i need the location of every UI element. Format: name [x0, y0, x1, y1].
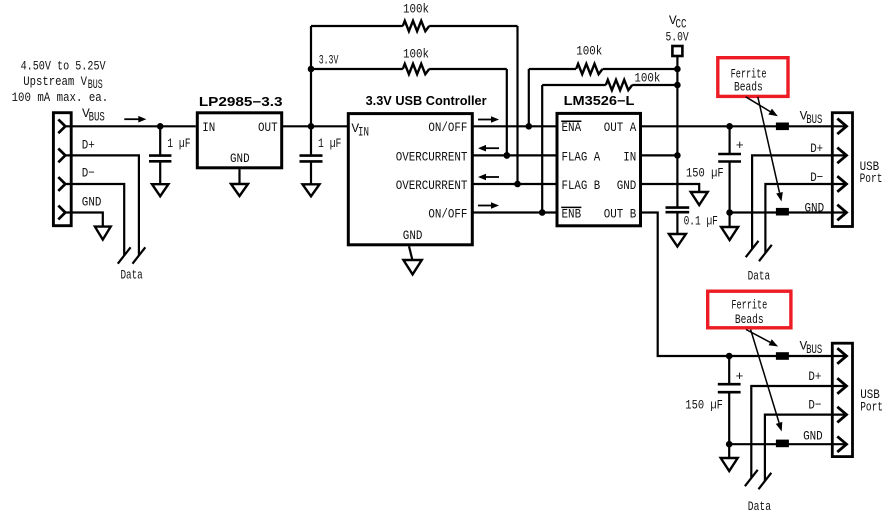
- svg-text:100k: 100k: [403, 2, 429, 17]
- wire LP2985 OUT to controller VIN (3.3V rail): [282, 125, 349, 127]
- wire U2 OVERCURRENT-B to U3 FLAG B: [472, 183, 557, 185]
- svg-text:Beads: Beads: [734, 80, 763, 95]
- svg-text:Ferrite: Ferrite: [731, 297, 767, 312]
- controller U2 3.3V USB Controller: [348, 114, 472, 245]
- svg-text:Port: Port: [860, 171, 883, 186]
- wire VCC rail down to IN and C4: [676, 69, 678, 208]
- junction dot OUT A at C5: [726, 123, 733, 130]
- svg-text:IN: IN: [358, 124, 369, 139]
- wire U3 GND to ground: [641, 184, 700, 192]
- junction dot C6 at bottom GND wire: [726, 441, 733, 448]
- junction dot VCC at IN: [674, 152, 681, 159]
- capacitor C5 150uF bulk (top port): [718, 126, 741, 212]
- svg-text:OUT A: OUT A: [604, 120, 637, 135]
- pin label ENA (U3): [561, 120, 581, 135]
- svg-text:1 µF: 1 µF: [318, 136, 341, 151]
- wire top port D-: [765, 184, 846, 253]
- wire 3.3V rail riser: [310, 26, 312, 126]
- svg-text:D+: D+: [808, 369, 821, 384]
- svg-text:GND: GND: [403, 228, 423, 243]
- ground (C5 / top port GND): [721, 213, 738, 241]
- break mark D- (top port): [759, 245, 772, 261]
- svg-text:GND: GND: [805, 200, 825, 215]
- wire U3 OUT B to bottom USB port VBUS: [641, 213, 847, 357]
- ground (U1 GND): [231, 169, 248, 196]
- capacitor C6 150uF bulk (bottom port): [718, 356, 741, 444]
- wire U2 ON/OFF-B to U3 ENB: [472, 211, 557, 213]
- svg-text:Port: Port: [860, 399, 883, 414]
- svg-text:GND: GND: [617, 178, 637, 193]
- wire bottom port GND: [729, 443, 846, 445]
- top USB port connector J2: [832, 113, 852, 227]
- signal arrow OVERCURRENT-A: [485, 147, 499, 149]
- svg-text:5.0V: 5.0V: [666, 30, 689, 45]
- junction dot FLAG A pull-up: [504, 152, 511, 159]
- svg-text:D−: D−: [810, 170, 823, 185]
- wire U3 OUT A to top USB port VBUS: [641, 125, 847, 127]
- ferrite bead FB4 on bottom GND: [776, 440, 789, 448]
- label USB Port (top): [860, 159, 883, 186]
- wire R1 to FLAG B net: [516, 26, 518, 184]
- svg-text:D−: D−: [808, 398, 821, 413]
- svg-text:ENB: ENB: [562, 206, 582, 221]
- junction dot OUT B at C6: [726, 353, 733, 360]
- junction dot at C1: [157, 123, 164, 130]
- wire U2 ON/OFF-A to U3 ENA: [472, 125, 557, 127]
- wire top port D+: [752, 155, 846, 249]
- break mark D+ upstream: [133, 247, 146, 263]
- callout box Ferrite Beads (bottom): [708, 291, 791, 328]
- break mark D- upstream: [118, 247, 131, 263]
- svg-text:OUT B: OUT B: [604, 206, 637, 221]
- ground (C1): [152, 184, 168, 196]
- resistor R2 100k (flag A pull-up to 3.3V): [311, 64, 507, 74]
- svg-text:BUS: BUS: [806, 112, 822, 127]
- junction dot ENA pull-up: [526, 123, 533, 130]
- svg-text:0.1 µF: 0.1 µF: [684, 214, 718, 229]
- leader arrow to FB4: [751, 330, 780, 423]
- svg-text:IN: IN: [623, 149, 636, 164]
- leader arrow to FB3: [746, 330, 770, 343]
- signal arrow ON/OFF-A: [478, 119, 492, 121]
- svg-text:BUS: BUS: [89, 110, 105, 125]
- resistor R3 100k (ENA pull-up to VCC): [529, 64, 678, 127]
- svg-text:Upstream V: Upstream V: [23, 74, 87, 89]
- svg-text:OVERCURRENT: OVERCURRENT: [396, 178, 468, 193]
- resistor R4 100k (ENB pull-up to VCC): [542, 80, 677, 213]
- svg-text:Data: Data: [120, 268, 142, 283]
- svg-text:100k: 100k: [634, 71, 660, 86]
- svg-text:+: +: [736, 138, 744, 153]
- capacitor C4 0.1uF VCC decoupling: [666, 208, 690, 234]
- junction dot 3.3V riser at R2: [308, 66, 315, 73]
- svg-text:OUT: OUT: [258, 120, 278, 135]
- svg-text:D−: D−: [82, 166, 95, 181]
- capacitor C1 1uF at LP2985 input: [149, 126, 171, 184]
- callout box Ferrite Beads (top): [718, 58, 788, 97]
- svg-text:IN: IN: [202, 120, 215, 135]
- regulator U1 LP2985-3.3: [197, 113, 281, 168]
- svg-text:D+: D+: [82, 138, 95, 153]
- wire GND upstream: [65, 213, 103, 227]
- ferrite bead FB2 on top GND: [776, 208, 789, 216]
- bottom USB port connector J3: [832, 343, 852, 456]
- svg-text:100k: 100k: [403, 47, 429, 62]
- break mark D+ (bottom port): [745, 470, 758, 486]
- power terminal VCC 5.0V: [672, 46, 682, 69]
- svg-text:FLAG B: FLAG B: [562, 178, 601, 193]
- junction dot at 3.3V rail / C2: [308, 123, 315, 130]
- svg-text:100 mA max. ea.: 100 mA max. ea.: [12, 90, 109, 105]
- leader arrow to FB1: [746, 97, 771, 112]
- wire D- upstream: [65, 184, 124, 256]
- ground (upstream GND): [95, 227, 111, 240]
- ground (U3 GND): [691, 192, 708, 205]
- upstream USB connector J1: [53, 113, 71, 226]
- svg-text:LP2985−3.3: LP2985−3.3: [199, 95, 283, 109]
- ground (C2): [303, 184, 320, 196]
- junction dot ENB pull-up: [539, 209, 546, 216]
- svg-text:ON/OFF: ON/OFF: [428, 206, 467, 221]
- junction dot C5 at top GND wire: [726, 209, 733, 216]
- svg-text:BUS: BUS: [806, 342, 822, 357]
- junction dot R1 at FLAG B wire: [514, 181, 521, 188]
- ferrite bead FB3 on bottom VBUS: [776, 352, 789, 360]
- svg-text:+: +: [736, 369, 744, 384]
- svg-text:D+: D+: [810, 141, 823, 156]
- wire U3 IN to VCC rail: [641, 154, 678, 156]
- wire bottom port D-: [765, 415, 847, 481]
- svg-text:Data: Data: [748, 268, 771, 283]
- break mark D+ (top port): [746, 241, 759, 257]
- svg-text:150 µF: 150 µF: [686, 165, 724, 180]
- leader arrow to FB2: [758, 97, 780, 193]
- svg-text:LM3526−L: LM3526−L: [564, 94, 635, 108]
- label USB Port (bottom): [860, 387, 883, 415]
- svg-text:100k: 100k: [576, 44, 602, 59]
- svg-text:Data: Data: [748, 499, 771, 513]
- svg-text:OVERCURRENT: OVERCURRENT: [396, 149, 468, 164]
- capacitor C2 1uF at controller VIN: [300, 126, 323, 184]
- signal arrow OVERCURRENT-B: [485, 176, 499, 178]
- power switch U3 LM3526-L: [557, 113, 641, 225]
- svg-text:ON/OFF: ON/OFF: [428, 120, 467, 135]
- ground (C6 / bottom port GND): [721, 444, 738, 471]
- junction dot R4 at VCC: [674, 82, 681, 89]
- label Ferrite Beads (bottom): [731, 297, 767, 327]
- svg-text:150 µF: 150 µF: [685, 398, 723, 413]
- ground (U2 GND): [403, 246, 421, 274]
- svg-text:3.3V USB Controller: 3.3V USB Controller: [366, 94, 487, 108]
- svg-text:4.50V to 5.25V: 4.50V to 5.25V: [21, 58, 106, 73]
- ground (C4): [669, 234, 686, 247]
- svg-text:GND: GND: [82, 195, 102, 210]
- junction dot R2 at FLAG A wire: [504, 152, 511, 159]
- svg-text:GND: GND: [230, 151, 250, 166]
- ferrite bead FB1 on top VBUS: [776, 123, 789, 131]
- svg-text:Beads: Beads: [735, 312, 764, 327]
- svg-text:GND: GND: [803, 429, 823, 444]
- current direction arrow on VBUS: [124, 118, 139, 120]
- wire bottom port D+: [751, 386, 846, 478]
- wire VBUS upstream to LP2985 IN: [65, 125, 196, 127]
- svg-text:3.3V: 3.3V: [319, 52, 339, 67]
- label Ferrite Beads (top): [731, 66, 767, 94]
- junction dot R3 at VCC: [674, 66, 681, 73]
- svg-text:FLAG A: FLAG A: [562, 149, 601, 164]
- resistor R1 100k (flag B pull-up to 3.3V): [311, 21, 518, 31]
- pin label ENB (U3): [561, 206, 581, 221]
- svg-text:ENA: ENA: [562, 120, 582, 135]
- wire R2 to FLAG A net: [506, 69, 508, 155]
- svg-text:1 µF: 1 µF: [167, 136, 190, 151]
- wire top port GND: [730, 211, 847, 213]
- wire D+ upstream: [65, 155, 139, 255]
- annotation: 4.50V to 5.25V Upstream VBUS 100 mA max. ea.: [12, 58, 109, 105]
- signal arrow ON/OFF-B: [478, 205, 492, 207]
- wire U2 OVERCURRENT-A to U3 FLAG A: [472, 154, 557, 156]
- break mark D- (bottom port): [759, 473, 772, 489]
